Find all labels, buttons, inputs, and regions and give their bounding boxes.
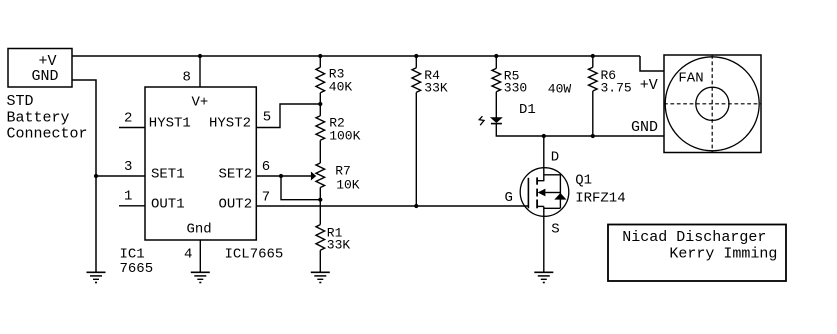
pin 3 number bbox=[124, 159, 132, 175]
pin 3 stub bbox=[96, 175, 145, 177]
svg-text:40W: 40W bbox=[548, 82, 572, 97]
wire rail to R3 bbox=[319, 56, 321, 67]
pin 7 number bbox=[262, 190, 270, 206]
label 40W bbox=[548, 82, 572, 97]
label HYST1 bbox=[149, 116, 191, 132]
label IC1 bbox=[120, 247, 145, 263]
Q1 source lead bbox=[543, 206, 545, 272]
svg-text:G: G bbox=[505, 190, 513, 206]
svg-text:GND: GND bbox=[631, 119, 658, 136]
title box bbox=[608, 225, 786, 282]
junction R6 bottom bbox=[591, 134, 595, 138]
svg-text:Nicad Discharger: Nicad Discharger bbox=[622, 229, 766, 246]
label STD Battery Connector bbox=[7, 93, 88, 143]
svg-text:+V: +V bbox=[640, 77, 658, 94]
label D bbox=[551, 150, 559, 166]
connector J1 battery box bbox=[8, 49, 72, 88]
pin 1 number bbox=[124, 189, 132, 205]
svg-text:V+: V+ bbox=[192, 95, 209, 111]
label D1 bbox=[519, 102, 536, 118]
wire rail to R5 bbox=[495, 56, 497, 68]
Q1 channel segment mid bbox=[536, 189, 538, 197]
label S bbox=[551, 222, 559, 238]
pin 2 number bbox=[124, 111, 132, 127]
svg-text:3.75: 3.75 bbox=[601, 81, 632, 96]
svg-text:SET2: SET2 bbox=[219, 167, 253, 183]
junction pin6 node bbox=[279, 174, 283, 178]
label R7 10K bbox=[335, 164, 360, 193]
junction rail/R3 bbox=[318, 54, 322, 58]
svg-text:STD: STD bbox=[7, 93, 34, 110]
label FAN bbox=[678, 71, 703, 87]
op-amp U1 ICL7665 body bbox=[145, 87, 256, 240]
svg-text:6: 6 bbox=[262, 159, 270, 175]
svg-text:10K: 10K bbox=[336, 178, 360, 193]
pin 5 wire to R3/R2 node bbox=[256, 104, 320, 128]
svg-text:4: 4 bbox=[184, 247, 192, 263]
fan blade circle bbox=[665, 57, 759, 151]
svg-text:100K: 100K bbox=[329, 129, 360, 144]
wire +V rail from battery to R6 bbox=[72, 55, 640, 57]
svg-text:2: 2 bbox=[124, 111, 132, 127]
svg-text:HYST1: HYST1 bbox=[149, 116, 191, 132]
Q1 channel segment bottom bbox=[536, 200, 538, 209]
junction GND/SET1 bbox=[94, 174, 98, 178]
wire R3 to node bbox=[319, 93, 321, 104]
svg-text:Battery: Battery bbox=[7, 110, 70, 127]
wire R5 to D1 bbox=[495, 92, 497, 118]
wire R6 to bottom rail bbox=[592, 91, 594, 136]
Q1 gate bar bbox=[527, 178, 529, 209]
svg-text:D1: D1 bbox=[519, 102, 536, 118]
resistor R4 bbox=[412, 68, 421, 93]
title Nicad Discharger bbox=[622, 229, 766, 246]
LED D1 cathode bar bbox=[491, 123, 502, 125]
label Gnd bbox=[187, 222, 212, 238]
wire R2 to R7 bbox=[319, 140, 321, 163]
label R6 3.75 bbox=[601, 68, 632, 96]
svg-text:330: 330 bbox=[504, 81, 527, 96]
svg-text:5: 5 bbox=[263, 110, 271, 126]
svg-text:7665: 7665 bbox=[120, 261, 154, 277]
svg-text:Kerry Imming: Kerry Imming bbox=[669, 246, 777, 263]
wire battery GND down to ground bbox=[72, 80, 96, 272]
svg-text:Connector: Connector bbox=[7, 126, 88, 143]
Q1 channel segment top bbox=[536, 177, 538, 184]
wire pin6 to R7 bottom bbox=[281, 176, 320, 200]
Q1 body arrow bbox=[538, 189, 546, 197]
arrowhead wiper bbox=[311, 172, 316, 181]
wire node to R1 bbox=[319, 200, 321, 225]
fan M1 box bbox=[664, 55, 761, 153]
svg-text:S: S bbox=[551, 222, 559, 238]
label R1 33K bbox=[327, 226, 351, 253]
label IRFZ14 bbox=[575, 191, 625, 207]
svg-text:D: D bbox=[551, 150, 559, 166]
pin 6 number bbox=[262, 159, 270, 175]
svg-text:OUT1: OUT1 bbox=[151, 197, 185, 213]
transistor Q1 circle bbox=[520, 168, 569, 217]
Q1 source contact bbox=[537, 205, 544, 207]
resistor R1 bbox=[316, 225, 325, 251]
Q1 drain contact bbox=[537, 180, 544, 182]
fan crosshair vertical bbox=[711, 55, 713, 153]
svg-text:FAN: FAN bbox=[678, 71, 703, 87]
svg-text:8: 8 bbox=[183, 70, 191, 86]
label HYST2 bbox=[209, 116, 251, 132]
svg-text:HYST2: HYST2 bbox=[209, 116, 251, 132]
svg-text:R7: R7 bbox=[335, 164, 351, 179]
label 7665 bbox=[120, 261, 154, 277]
pin 8 wire bbox=[199, 56, 201, 87]
label fan GND bbox=[631, 119, 658, 136]
junction rail/R4 bbox=[414, 54, 418, 58]
wire R4 to gate wire bbox=[415, 92, 417, 206]
wire rail to R4 bbox=[415, 56, 417, 68]
svg-text:IRFZ14: IRFZ14 bbox=[575, 191, 625, 207]
junction R4/gate bbox=[414, 204, 418, 208]
fan hub circle bbox=[696, 87, 729, 120]
svg-text:3: 3 bbox=[124, 159, 132, 175]
pin 5 number bbox=[263, 110, 271, 126]
label OUT2 bbox=[219, 197, 253, 213]
Q1 drain right branch bbox=[544, 175, 561, 209]
junction rail/R6 bbox=[591, 54, 595, 58]
svg-text:ICL7665: ICL7665 bbox=[225, 247, 284, 263]
wire rail to R6 bbox=[592, 56, 594, 67]
wire OUT2 to gate bbox=[256, 205, 528, 207]
label Q1 bbox=[575, 173, 592, 189]
label V+ bbox=[192, 95, 209, 111]
LED D1 triangle bbox=[490, 117, 503, 123]
ground Q1 source bbox=[534, 272, 553, 283]
wire pin6 wiper arrow bbox=[281, 175, 312, 177]
Q1 body diode bbox=[554, 193, 566, 200]
pin 8 number bbox=[183, 70, 191, 86]
resistor R6 bbox=[589, 67, 598, 91]
pin 1 stub bbox=[119, 205, 145, 207]
wire R7 to node bbox=[319, 188, 321, 200]
label SET2 bbox=[219, 167, 253, 183]
wire D1 to bottom rail bbox=[496, 124, 664, 136]
label R3 40K bbox=[329, 67, 353, 95]
connector J1 GND pin label bbox=[32, 68, 59, 85]
wire R1 to ground bbox=[319, 250, 321, 272]
junction R3/R2/pin5 bbox=[318, 102, 322, 106]
svg-text:OUT2: OUT2 bbox=[219, 197, 253, 213]
pin 2 stub bbox=[119, 127, 145, 129]
ground IC pin4 bbox=[191, 272, 210, 283]
wire node to R2 bbox=[319, 104, 321, 116]
svg-text:33K: 33K bbox=[424, 81, 448, 96]
connector J1 +V pin label bbox=[39, 53, 57, 70]
pin 4 wire bbox=[199, 240, 201, 272]
resistor R2 bbox=[316, 116, 325, 141]
Q1 source bottom branch bbox=[544, 207, 561, 209]
label R5 330 bbox=[504, 69, 527, 96]
label R4 33K bbox=[424, 68, 448, 96]
resistor R5 bbox=[492, 68, 501, 91]
resistor R3 bbox=[316, 67, 325, 93]
potentiometer R7 bbox=[316, 163, 325, 188]
Q1 body wire bbox=[545, 192, 560, 194]
junction rail/R5 bbox=[494, 54, 498, 58]
ground R1 bbox=[311, 272, 330, 283]
fan crosshair horizontal bbox=[664, 103, 761, 105]
Q1 drain lead bbox=[543, 136, 545, 181]
svg-text:SET1: SET1 bbox=[151, 167, 185, 183]
svg-text:Gnd: Gnd bbox=[187, 222, 212, 238]
ground battery bbox=[87, 272, 106, 283]
label R2 100K bbox=[329, 116, 360, 144]
svg-text:Q1: Q1 bbox=[575, 173, 592, 189]
wire +V jog into fan bbox=[640, 56, 664, 71]
svg-text:1: 1 bbox=[124, 189, 132, 205]
pin 4 number bbox=[184, 247, 192, 263]
junction R7/R1/pin6 bbox=[318, 198, 322, 202]
svg-text:GND: GND bbox=[32, 68, 59, 85]
label G bbox=[505, 190, 513, 206]
pin 6 stub bbox=[256, 175, 281, 177]
junction drain bbox=[542, 134, 546, 138]
svg-text:33K: 33K bbox=[327, 238, 351, 253]
svg-text:40K: 40K bbox=[329, 80, 353, 95]
label ICL7665 bbox=[225, 247, 284, 263]
junction rail/pin8 bbox=[198, 54, 202, 58]
svg-text:7: 7 bbox=[262, 190, 270, 206]
label SET1 bbox=[151, 167, 185, 183]
title Kerry Imming bbox=[669, 246, 777, 263]
label OUT1 bbox=[151, 197, 185, 213]
label fan +V bbox=[640, 77, 658, 94]
LED D1 flash mark bbox=[479, 116, 484, 125]
